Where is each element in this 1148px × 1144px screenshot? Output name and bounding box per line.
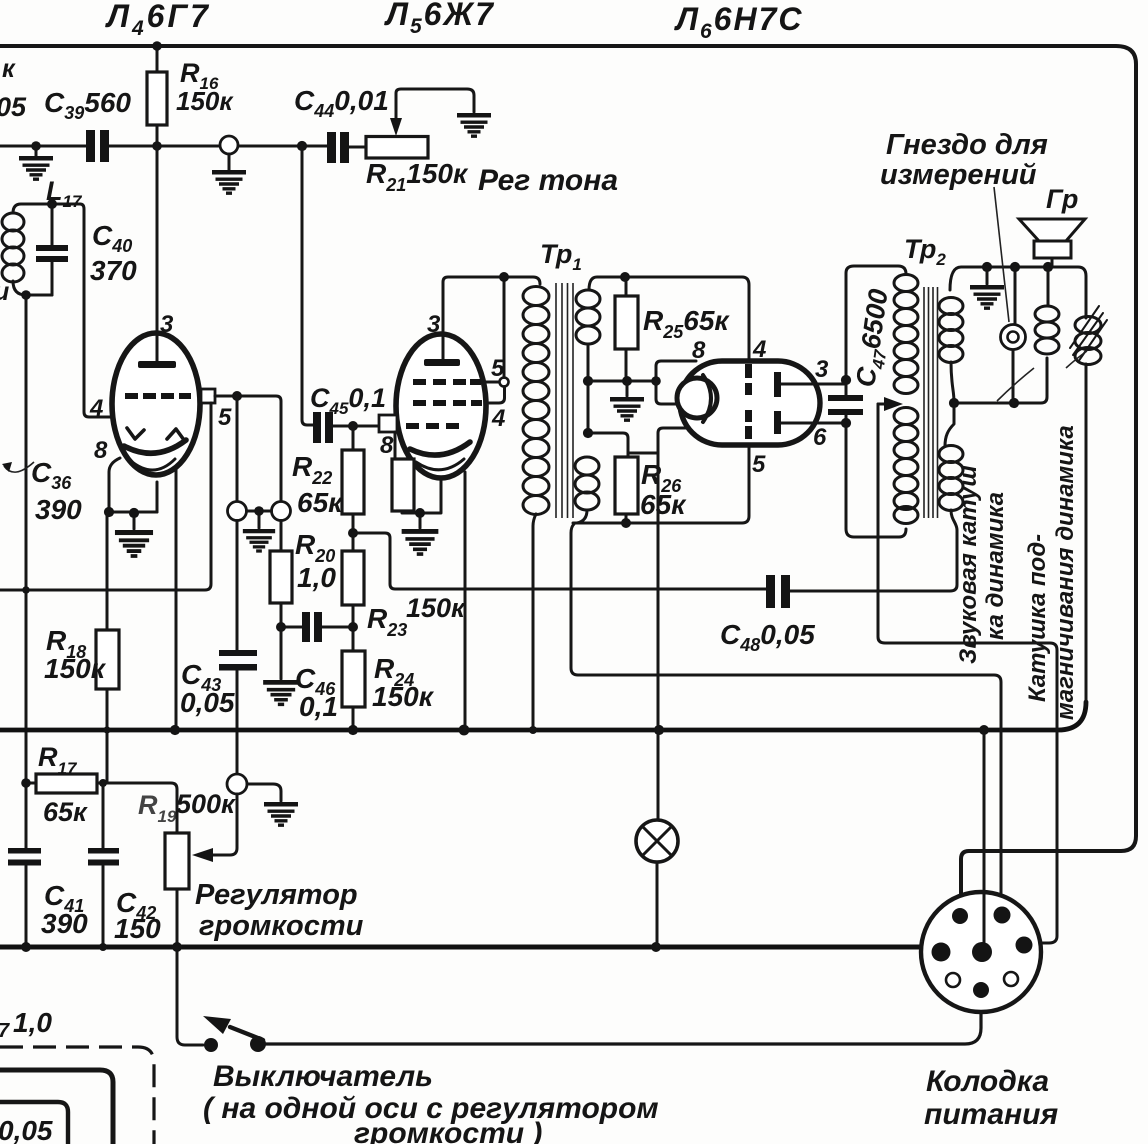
double triode L6 envelope: [680, 361, 820, 445]
Tp1 secondary top rail to L6 grid (pin 4): [589, 277, 749, 361]
svg-text:Рег тона: Рег тона: [478, 164, 618, 197]
Tp2 primary left rail with nodes for pins 3/6: [846, 266, 906, 380]
wire between jacks with ground: [247, 511, 272, 528]
power switch contacts: [204, 1038, 218, 1052]
node under R22: [348, 528, 358, 538]
ground symbol under mid rail: [610, 397, 644, 420]
Tp2 secondary upper winding: [939, 298, 963, 315]
loudspeaker voice coil: [1047, 267, 1050, 306]
ground symbol under C46 node: [263, 680, 299, 704]
svg-text:Регулятор: Регулятор: [195, 879, 358, 911]
node at bottom rail of L17: [21, 290, 31, 300]
svg-text:C450,1: C450,1: [310, 383, 386, 418]
L5 screen grid dashes row 1: [413, 379, 426, 385]
wire jack to ground: [247, 784, 281, 801]
R21 wiper arrow and wire to ground: [396, 89, 474, 119]
svg-text:0,05: 0,05: [0, 1115, 53, 1144]
svg-text:65к: 65к: [43, 797, 88, 827]
L4 anode wire (pin 3) from signal node: [156, 146, 159, 361]
main detector signal wire (y=146): [0, 145, 327, 148]
socket pins: [932, 943, 951, 962]
measurement jack: [1013, 267, 1015, 403]
Tp1 secondary lower winding: [575, 457, 599, 475]
svg-text:150к: 150к: [406, 593, 466, 623]
Tp2 primary winding lower: [894, 408, 918, 425]
capacitor C46 0,1 between R20 and R23/R24: [281, 626, 353, 629]
top B+ bus wire (y=46) with right-side descent to power socket: [0, 46, 1136, 909]
svg-text:C39560: C39560: [44, 87, 131, 123]
svg-text:150к: 150к: [44, 653, 107, 684]
wire secondary bottom to socket (y=675 run): [571, 524, 1001, 907]
svg-text:Выключатель: Выключатель: [213, 1060, 433, 1093]
svg-text:65к: 65к: [640, 489, 687, 520]
Tp2 core laminations: [924, 287, 938, 518]
secondary center wire down with nodes: [587, 344, 590, 433]
svg-text:65к: 65к: [297, 487, 344, 518]
svg-text:3: 3: [815, 356, 829, 383]
wire x=237 down through C43: [236, 521, 239, 775]
grid return mid rail: [588, 380, 657, 383]
shield can box 1: [0, 1070, 113, 1144]
capacitor C48 0,05 plates: [766, 575, 775, 608]
ground symbol below node x=36: [19, 156, 53, 179]
svg-text:3: 3: [160, 311, 174, 338]
heater bus 1 (y=730) ending in rise to field coil: [0, 702, 1086, 730]
node L17 top: [47, 199, 57, 209]
L6 anode lead pin 6: [781, 422, 846, 425]
L5 grid dashes row 2: [413, 400, 426, 406]
ground symbol between jacks: [243, 529, 275, 551]
capacitor C41 390: [8, 848, 41, 854]
resistor R22 65k: [352, 426, 355, 533]
grounding jack circle x=237 y=784: [227, 774, 247, 794]
svg-text:магничивания динамика: магничивания динамика: [1052, 425, 1079, 720]
L4 pin 5 terminal square: [201, 389, 215, 403]
svg-text:5: 5: [752, 451, 766, 478]
wire lower coil node to R26 top: [588, 433, 628, 457]
wire from L17 to tube L4 grid (pin 4): [80, 204, 114, 417]
svg-text:0,1: 0,1: [299, 691, 338, 722]
ground symbol under L4 cathode: [115, 530, 153, 556]
wire from C44 node down to C45: [302, 146, 313, 425]
shield can box 2: [0, 1102, 68, 1144]
Tp1 primary bottom lead down to bus1: [533, 514, 536, 730]
wire secondary bottom to C48: [790, 510, 957, 591]
loudspeaker Gr symbol: [1019, 219, 1085, 241]
svg-text:Гнездо для: Гнездо для: [886, 129, 1048, 161]
bypass jack circle x=281: [272, 502, 291, 521]
resistor R17 65k: [36, 774, 97, 793]
wire L6 second cathode / bias line down to dial lamp: [658, 428, 687, 820]
svg-text:8: 8: [692, 337, 706, 364]
svg-text:150: 150: [114, 913, 161, 944]
capacitor C43 0,05 plates: [219, 650, 257, 656]
L5 heater wire x=465 down to bus: [464, 472, 467, 730]
L5 cathode wire and ground: [402, 477, 441, 528]
Tp2 secondary lower winding: [945, 403, 954, 446]
ground on secondary top rail: [986, 267, 989, 284]
svg-text:Л66Н7С: Л66Н7С: [674, 1, 803, 43]
svg-text:громкости ): громкости ): [354, 1117, 542, 1144]
svg-text:390: 390: [41, 908, 88, 939]
wire R17 to R19 top: [97, 783, 177, 833]
svg-text:05: 05: [0, 92, 27, 122]
test jack circle on signal wire at x=229: [220, 136, 238, 154]
resistor R20 1,0: [280, 521, 283, 628]
wire switch to power socket bottom pin: [266, 998, 981, 1044]
leader to voice coil: [997, 368, 1034, 401]
Tp1 secondary bottom rail to L6 grid (pin 5): [573, 445, 749, 523]
resistor R16 150k body: [156, 46, 159, 146]
resistor R18 150k: [106, 512, 109, 782]
resistor R23 150k: [352, 533, 355, 551]
capacitor C47 6500 plates: [828, 395, 863, 401]
svg-text:0,05: 0,05: [180, 687, 235, 718]
Tp2 primary winding upper: [894, 275, 918, 292]
L4 cathode bowl arc: [124, 440, 186, 453]
wire to C48 feedback line (y=589): [353, 533, 766, 589]
L6 anode bar upper triode: [774, 372, 781, 397]
Tp2 secondary top rail: [950, 267, 1086, 318]
node on AVC line at y=590: [22, 586, 30, 594]
resistor R24 150k: [342, 651, 365, 707]
svg-text:C480,05: C480,05: [720, 619, 815, 655]
wire node to L6 cathode: [656, 381, 677, 404]
bus1 junction nodes: [103, 726, 110, 733]
L4 pin-8 wire down to AVC line: [109, 458, 120, 512]
Tp1 primary winding: [523, 287, 549, 306]
capacitor C42 150: [102, 783, 105, 947]
lamp wire to bus2: [656, 862, 659, 947]
L4 filament marks: [127, 428, 184, 440]
svg-text:Колодка: Колодка: [926, 1065, 1049, 1098]
wire mid-rail node to L6 pin 8: [656, 361, 696, 381]
ground symbol below jack x=229: [212, 170, 246, 193]
wire jack down to R19 wiper arrow: [212, 794, 237, 855]
capacitor C40 370 (across L17): [51, 204, 54, 295]
L4 cathode wire down: [156, 482, 159, 512]
dashed shield boundary bottom-left: [0, 1047, 154, 1144]
wire stub to ground: [35, 146, 38, 156]
L4 grid dashes: [125, 393, 138, 399]
svg-text:4: 4: [752, 336, 766, 363]
svg-text:4: 4: [491, 405, 505, 432]
wire mid rail to ground: [626, 381, 629, 396]
svg-text:6: 6: [813, 424, 827, 451]
svg-text:Гр: Гр: [1046, 184, 1078, 214]
bypass jack circle x=237: [228, 502, 247, 521]
svg-text:громкости: громкости: [199, 910, 364, 942]
junction node at x=36 on signal wire: [31, 141, 41, 151]
volume potentiometer R19 500k body: [165, 833, 189, 889]
potentiometer R21 150k tone control body: [366, 137, 428, 159]
wire from L4 pin5 square down and left (y=590 rail): [0, 403, 211, 590]
pin 5/4 tie wire up to anode rail: [487, 277, 505, 403]
svg-text:8: 8: [94, 437, 108, 464]
IF transformer coil L17 (cut at left edge): [13, 204, 80, 295]
svg-text:500к: 500к: [176, 789, 236, 819]
R19 bottom wire to lower bus: [176, 889, 179, 947]
bus2 junction nodes: [21, 942, 31, 952]
wire R19 to on/off switch: [177, 947, 203, 1045]
Tp1 secondary upper winding: [576, 290, 600, 308]
svg-text:питания: питания: [924, 1098, 1058, 1131]
wire R20/C46 node to ground: [280, 627, 283, 679]
svg-text:и: и: [0, 278, 9, 306]
svg-text:150к: 150к: [176, 86, 234, 116]
L6 anode bar lower triode: [774, 411, 781, 434]
L6 cathode circle: [677, 378, 717, 418]
L5 pin 8 terminal square: [379, 415, 397, 432]
L5 cathode bowl arc: [410, 442, 470, 455]
capacitor C45 0,1 plates: [313, 412, 321, 443]
svg-text:390: 390: [35, 494, 82, 525]
L5 control grid dashes row 3: [406, 423, 419, 429]
L4 anode plate bar: [138, 361, 176, 368]
svg-text:ка динамика: ка динамика: [982, 492, 1009, 640]
svg-text:8: 8: [380, 432, 394, 459]
triode L4 envelope: [112, 333, 200, 475]
leader to field coil: [1066, 351, 1087, 368]
svg-text:к: к: [2, 55, 16, 83]
L5 cathode resistor: [394, 432, 397, 459]
svg-text:5: 5: [218, 404, 232, 431]
secondary mid rail: [954, 358, 1047, 403]
ground symbol under L5 cathode: [402, 529, 439, 554]
svg-text:1,0: 1,0: [13, 1007, 52, 1038]
capacitor C44 0,01 plates: [327, 132, 336, 163]
L4 heater wire x=175 down to bus: [175, 468, 178, 730]
wire L4 pin5 to divider (y=396): [215, 396, 281, 502]
svg-text:370: 370: [90, 255, 137, 286]
svg-text:7: 7: [0, 1020, 10, 1042]
L6 anode lead pin 3: [781, 383, 846, 386]
heater bus 2 (y=947): [0, 945, 936, 950]
pentode L5 envelope: [396, 334, 486, 478]
L6 grid dashes column: [745, 364, 752, 378]
svg-text:3: 3: [427, 311, 441, 338]
L4 cathode junction wires and nodes: [109, 512, 157, 529]
svg-text:Звуковая катуш: Звуковая катуш: [955, 465, 982, 664]
speaker field coil with core hatch: [1075, 317, 1101, 334]
svg-text:Катушка под-: Катушка под-: [1024, 534, 1051, 702]
Tp2 primary tap arrow wire to socket (tone tap): [878, 403, 886, 406]
svg-text:150к: 150к: [372, 681, 435, 712]
wire row1 to pin 5 circle terminal: [486, 381, 500, 384]
wire C45 to L5 pin 8: [333, 425, 379, 428]
Tp1 core laminations: [556, 283, 573, 518]
svg-text:1,0: 1,0: [297, 562, 336, 593]
dial lamp: [636, 820, 678, 862]
L5 anode wire (pin 3) up to Tp1 primary: [443, 277, 540, 360]
resistor R25 65k: [625, 277, 628, 381]
ground symbol right of jack: [264, 802, 298, 825]
svg-text:C440,01: C440,01: [294, 85, 389, 121]
L5 anode plate bar: [424, 359, 460, 366]
switch lever with arrow: [230, 1027, 263, 1040]
socket pin wire from bus1: [983, 730, 986, 942]
power socket outline: [921, 892, 1041, 1012]
junction node at x=302 (C44 / grid coupling): [297, 141, 307, 151]
resistor R26 65k: [615, 457, 638, 514]
long left AVC wire x=26 going down: [25, 295, 28, 947]
svg-text:измерений: измерений: [880, 159, 1037, 191]
wire C44 to R21: [349, 146, 366, 149]
capacitor C39 560 plates: [86, 130, 95, 162]
ground symbol for R21 wiper: [457, 113, 491, 136]
svg-text:4: 4: [89, 395, 103, 422]
